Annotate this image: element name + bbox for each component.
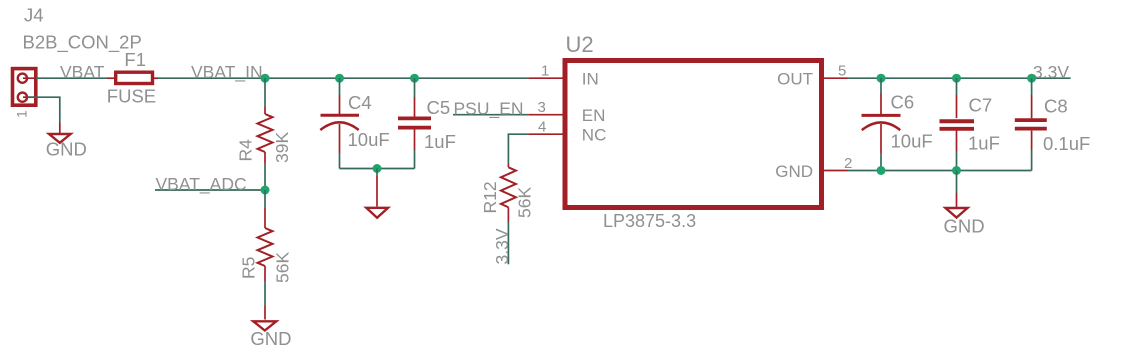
svg-text:5: 5 (838, 63, 846, 80)
svg-text:C8: C8 (1044, 96, 1068, 117)
svg-text:J4: J4 (24, 5, 44, 26)
junction (VBAT_IN / R4) (261, 74, 270, 83)
svg-text:C6: C6 (891, 92, 915, 113)
wire VBAT_IN (fuse to U2 pin 1) (158, 77, 528, 79)
resistor R4 (258, 78, 273, 190)
connector J4 (13, 69, 36, 106)
wire stub to ground (below C7) (956, 171, 958, 194)
svg-text:GND: GND (775, 162, 813, 181)
svg-text:3.3V: 3.3V (1033, 62, 1069, 82)
ground (below J4) (49, 134, 71, 143)
svg-text:GND: GND (944, 216, 985, 237)
svg-text:56K: 56K (273, 252, 293, 283)
junction (C6 bottom) (877, 166, 886, 175)
svg-text:VBAT_IN: VBAT_IN (191, 62, 263, 83)
svg-text:1uF: 1uF (968, 132, 1000, 153)
svg-text:1uF: 1uF (424, 131, 456, 152)
svg-text:3: 3 (538, 99, 546, 116)
net label VBAT_ADC wire stub (155, 189, 265, 191)
ground (below R5) (253, 321, 276, 330)
svg-text:1: 1 (14, 110, 30, 118)
svg-text:C7: C7 (969, 94, 993, 115)
svg-text:C5: C5 (427, 97, 451, 118)
svg-text:EN: EN (582, 106, 606, 125)
pin 1 stub (528, 77, 562, 79)
wire (pin2 of J4 to ground) (27, 97, 60, 123)
capacitor C6 (862, 78, 901, 170)
capacitor C8 (1015, 78, 1047, 170)
resistor R12 (501, 164, 516, 264)
pin 3 stub (528, 114, 562, 116)
svg-text:GND: GND (46, 138, 87, 159)
junction (C8 top / 3.3V) (1027, 74, 1036, 83)
svg-text:IN: IN (582, 69, 599, 88)
ground (below C4/C5) (366, 208, 388, 218)
op-amp / IC U2 (565, 61, 822, 208)
wire GND rail (U2 pin 2 to C8 bottom) (848, 170, 1032, 172)
svg-text:39K: 39K (272, 132, 292, 163)
resistor R5 (258, 190, 273, 320)
svg-text:VBAT_ADC: VBAT_ADC (156, 174, 247, 195)
pin 4 stub (528, 133, 562, 135)
svg-text:NC: NC (582, 126, 607, 145)
wire VBAT (pin1 to fuse) (36, 77, 107, 79)
svg-text:10uF: 10uF (891, 131, 933, 152)
svg-text:10uF: 10uF (348, 129, 390, 150)
wire (C4 bottom to C5 bottom) (340, 168, 415, 170)
junction (C7 bottom) (952, 166, 961, 175)
capacitor C5 (398, 78, 431, 168)
capacitor C7 (940, 78, 975, 170)
svg-text:R4: R4 (236, 139, 256, 162)
junction (C6 top) (877, 74, 886, 83)
svg-text:U2: U2 (566, 32, 594, 57)
svg-text:LP3875-3.3: LP3875-3.3 (603, 211, 696, 231)
svg-text:R12: R12 (480, 181, 500, 213)
svg-text:0.1uF: 0.1uF (1043, 133, 1090, 154)
svg-text:R5: R5 (239, 257, 259, 279)
junction (C4 top) (335, 74, 344, 83)
fuse F1 (107, 72, 158, 83)
wire (U2 pin 4 to R12) (508, 134, 528, 164)
svg-text:2: 2 (844, 155, 852, 172)
svg-text:56K: 56K (514, 187, 534, 218)
svg-text:C4: C4 (348, 92, 372, 113)
svg-text:3.3V: 3.3V (492, 228, 512, 264)
svg-text:1: 1 (541, 63, 549, 80)
capacitor C4 (320, 78, 359, 168)
wire 3.3V rail (U2 pin 5 to label) (848, 77, 1071, 79)
junction (C4/C5 gnd) (373, 164, 382, 173)
junction (VBAT_ADC) (261, 186, 270, 195)
pin 5 stub (824, 77, 848, 79)
svg-text:VBAT: VBAT (60, 62, 105, 82)
svg-text:OUT: OUT (777, 69, 813, 88)
wire stub to ground (376, 169, 378, 177)
junction (C5 top) (410, 74, 419, 83)
ground (below C7) (946, 208, 968, 218)
svg-text:FUSE: FUSE (107, 85, 156, 106)
wire PSU_EN (to U2 pin 3) (453, 114, 528, 116)
svg-text:PSU_EN: PSU_EN (454, 99, 524, 120)
junction (C7 top) (952, 74, 961, 83)
pin 2 stub (824, 170, 848, 172)
svg-text:F1: F1 (124, 49, 146, 70)
svg-text:4: 4 (538, 119, 546, 136)
svg-text:GND: GND (250, 328, 291, 349)
